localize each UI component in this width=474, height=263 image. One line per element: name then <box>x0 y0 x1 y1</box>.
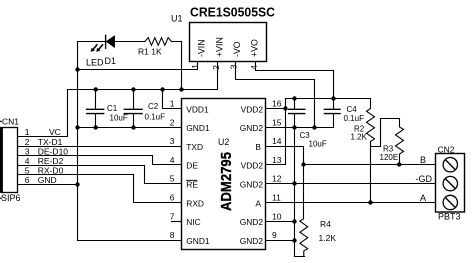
svg-text:14: 14 <box>272 136 282 146</box>
svg-text:C4: C4 <box>347 105 358 114</box>
svg-text:5: 5 <box>25 166 30 176</box>
svg-text:CN2: CN2 <box>438 145 455 155</box>
svg-text:C1: C1 <box>107 104 118 113</box>
svg-text:1: 1 <box>190 64 200 69</box>
svg-text:6: 6 <box>25 175 30 185</box>
svg-text:RXD: RXD <box>186 198 204 208</box>
svg-text:GND2: GND2 <box>240 236 264 246</box>
svg-text:11: 11 <box>272 193 281 203</box>
svg-text:2: 2 <box>211 65 221 70</box>
svg-text:-GD: -GD <box>416 174 433 184</box>
svg-text:2: 2 <box>25 137 30 147</box>
svg-text:5: 5 <box>170 174 175 184</box>
svg-text:0.1uF: 0.1uF <box>344 114 365 123</box>
svg-text:1: 1 <box>170 99 175 109</box>
svg-text:ADM2795: ADM2795 <box>219 152 235 211</box>
svg-text:GND1: GND1 <box>186 123 210 133</box>
svg-text:4: 4 <box>25 156 30 166</box>
svg-text:RE: RE <box>186 180 198 190</box>
svg-text:120E: 120E <box>380 153 399 162</box>
svg-text:12: 12 <box>272 174 282 184</box>
svg-text:R1 1K: R1 1K <box>138 47 162 57</box>
svg-text:U2: U2 <box>218 137 229 147</box>
svg-text:A: A <box>255 198 261 208</box>
svg-text:GND: GND <box>38 175 57 185</box>
svg-text:1.2K: 1.2K <box>319 233 337 243</box>
svg-text:7: 7 <box>170 211 175 221</box>
svg-text:4: 4 <box>170 155 175 165</box>
svg-text:15: 15 <box>272 117 282 127</box>
svg-text:CN1: CN1 <box>2 116 19 126</box>
svg-text:VDD1: VDD1 <box>186 104 209 114</box>
svg-text:RX-D0: RX-D0 <box>38 166 64 176</box>
svg-text:VC: VC <box>49 127 61 137</box>
svg-text:D1: D1 <box>105 56 117 66</box>
svg-text:TX-D1: TX-D1 <box>38 137 63 147</box>
svg-text:2: 2 <box>170 117 175 127</box>
svg-text:VDD2: VDD2 <box>241 161 264 171</box>
svg-text:NIC: NIC <box>186 217 200 227</box>
svg-text:-VO: -VO <box>232 41 242 57</box>
svg-text:3: 3 <box>229 64 239 69</box>
svg-text:B: B <box>255 142 261 152</box>
svg-text:-VIN: -VIN <box>197 39 207 57</box>
svg-text:R4: R4 <box>320 219 331 229</box>
svg-text:CRE1S0505SC: CRE1S0505SC <box>190 5 276 20</box>
svg-text:PBT3: PBT3 <box>438 212 461 222</box>
svg-text:10uF: 10uF <box>110 114 128 123</box>
svg-text:8: 8 <box>170 230 175 240</box>
svg-text:U1: U1 <box>171 14 183 24</box>
svg-text:GND1: GND1 <box>186 236 210 246</box>
svg-text:+VIN: +VIN <box>214 37 224 57</box>
svg-text:A: A <box>420 193 426 203</box>
svg-text:DE: DE <box>186 161 198 171</box>
svg-text:10: 10 <box>272 211 282 221</box>
svg-text:6: 6 <box>170 193 175 203</box>
svg-text:3: 3 <box>170 136 175 146</box>
svg-text:3: 3 <box>25 146 30 156</box>
svg-text:B: B <box>420 155 426 165</box>
svg-text:GND2: GND2 <box>240 123 264 133</box>
svg-text:1: 1 <box>25 127 30 137</box>
svg-text:10uF: 10uF <box>309 140 327 149</box>
svg-text:+VO: +VO <box>249 39 259 57</box>
svg-text:VDD2: VDD2 <box>241 104 264 114</box>
svg-text:SIP6: SIP6 <box>1 193 21 203</box>
svg-text:0.1uF: 0.1uF <box>145 113 166 122</box>
svg-text:GND2: GND2 <box>240 217 264 227</box>
svg-text:TXD: TXD <box>186 142 203 152</box>
svg-text:RE-D2: RE-D2 <box>38 156 64 166</box>
svg-text:C2: C2 <box>148 102 159 111</box>
svg-text:1.2K: 1.2K <box>351 133 368 142</box>
svg-text:GND2: GND2 <box>240 180 264 190</box>
svg-text:9: 9 <box>272 230 277 240</box>
svg-text:DE-D10: DE-D10 <box>38 146 69 156</box>
svg-text:16: 16 <box>272 99 282 109</box>
svg-text:4: 4 <box>249 65 259 70</box>
svg-text:13: 13 <box>272 155 282 165</box>
svg-text:LED: LED <box>86 58 104 68</box>
